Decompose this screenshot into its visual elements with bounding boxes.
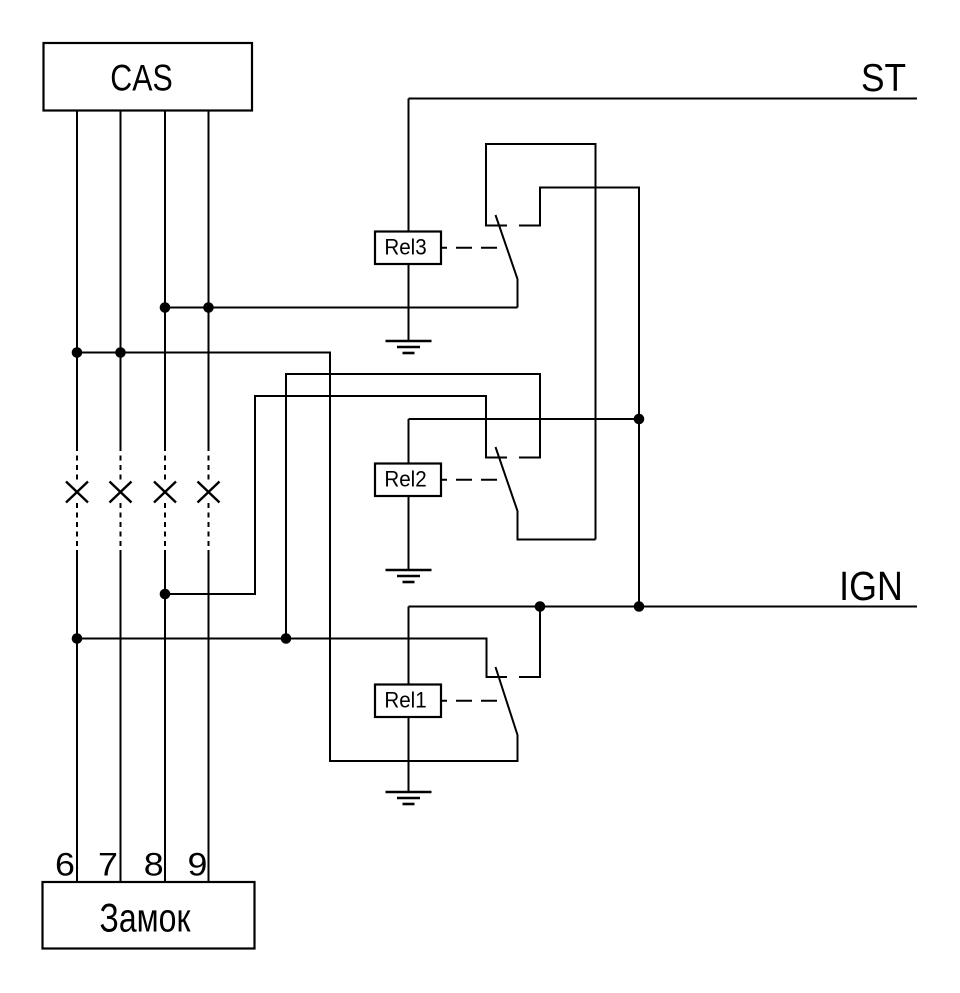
- node IGN/Rel1 lower contact junction: [535, 601, 546, 612]
- svg-text:ST: ST: [861, 55, 906, 99]
- cut mark X on wire 6: [66, 482, 88, 503]
- wire Rel2 coil to ground: [408, 496, 410, 570]
- svg-text:IGN: IGN: [839, 564, 903, 610]
- wire pin 6 dashed cut section: [76, 446, 78, 550]
- node IGN/Rel3 contact line junction: [634, 601, 645, 612]
- svg-text:8: 8: [144, 847, 164, 883]
- Rel1 actuation dashed link: [441, 700, 501, 702]
- svg-text:Замок: Замок: [100, 895, 192, 940]
- relay Rel3 coil box: [375, 232, 441, 265]
- wire CAS to pin 9 (solid sections): [208, 111, 210, 883]
- wire net ST horizontal: [409, 98, 918, 100]
- Rel2 lower contact wire to Rel1 left contact line: [286, 374, 540, 639]
- Rel3 actuation dashed link: [441, 247, 501, 249]
- block CAS (immobilizer unit): [44, 43, 253, 111]
- node pin9/arm3 junction: [203, 302, 214, 313]
- node pin8/arm3 junction: [160, 302, 171, 313]
- wire CAS to pin 6 (solid sections): [76, 111, 78, 883]
- wire CAS to pin 7 (solid sections): [120, 111, 122, 883]
- wire Rel2 coil feed from node on Rel3 contact line: [409, 419, 640, 464]
- cut mark X on wire 8: [154, 482, 176, 503]
- wire Rel3 coil to ST: [408, 99, 410, 232]
- wire pin 9 dashed cut section: [208, 446, 210, 550]
- Rel1 switch arm and wire to CAS pins 6,7: [77, 353, 518, 762]
- wire Rel3 coil to ground: [408, 264, 410, 341]
- Rel2 switch arm: [496, 447, 596, 540]
- cut mark X on wire 9: [198, 482, 220, 503]
- node pin8/Rel2 upper contact junction: [160, 589, 171, 600]
- ground (Rel3): [386, 341, 432, 353]
- svg-text:Rel2: Rel2: [384, 467, 426, 492]
- node pin6/Rel1 upper contact junction: [72, 633, 83, 644]
- Rel2 actuation dashed link: [441, 479, 501, 481]
- Rel1 upper contact wire to CAS pin 6: [77, 639, 507, 678]
- Rel2 upper contact wire to CAS pin 8: [165, 396, 507, 594]
- cut mark X on wire 7: [110, 482, 132, 503]
- wire Rel3 arm to CAS pins 8,9: [165, 307, 518, 309]
- wire Rel1 coil to ground: [408, 717, 410, 792]
- Rel3 switch arm: [496, 215, 518, 308]
- svg-text:7: 7: [98, 847, 118, 883]
- wire pin 8 dashed cut section: [164, 446, 166, 550]
- relay Rel2 coil box: [375, 464, 441, 497]
- node Rel2 coil feed junction: [634, 414, 645, 425]
- svg-text:6: 6: [55, 847, 75, 883]
- svg-text:CAS: CAS: [110, 58, 172, 100]
- Rel3 upper contact and frame wire to Rel2 arm: [486, 144, 596, 540]
- wire net IGN horizontal: [409, 606, 918, 608]
- Rel3 lower contact wire to net IGN: [519, 188, 639, 607]
- relay Rel1 coil box: [375, 685, 441, 718]
- wire pin 7 dashed cut section: [120, 446, 122, 550]
- block Замок (ignition lock): [43, 882, 255, 949]
- node pin6/arm1 junction: [72, 347, 83, 358]
- node pin7/arm1 junction: [115, 347, 126, 358]
- svg-text:Rel3: Rel3: [384, 235, 426, 260]
- svg-text:9: 9: [188, 847, 208, 883]
- wire CAS to pin 8 (solid sections): [164, 111, 166, 883]
- svg-text:Rel1: Rel1: [384, 688, 426, 713]
- node Rel2 lower contact/Rel1 line junction: [281, 633, 292, 644]
- ground (Rel2): [386, 570, 432, 582]
- Rel1 lower contact wire to net IGN: [519, 607, 540, 678]
- ground (Rel1): [386, 792, 432, 804]
- wire Rel1 coil to net IGN: [408, 607, 410, 685]
